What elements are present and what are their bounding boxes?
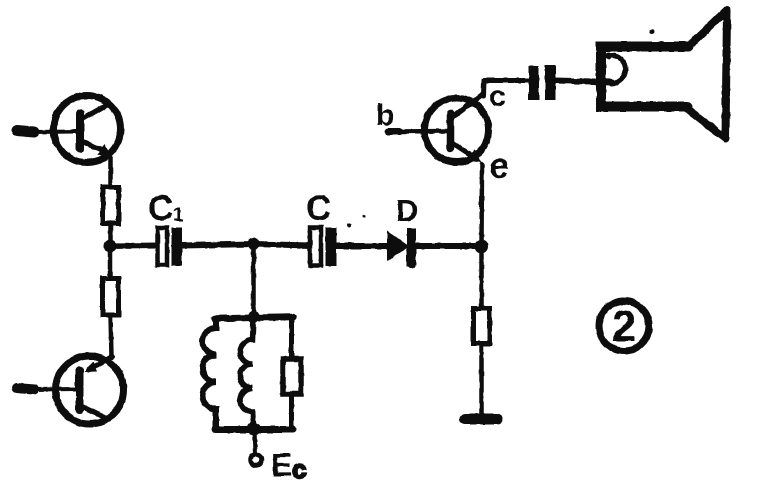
wire R1 to node A	[108, 223, 113, 246]
svg-text:2: 2	[612, 302, 636, 351]
transistor Q1	[54, 96, 121, 163]
figure number 2	[599, 301, 649, 351]
node B	[247, 238, 260, 251]
wire tank bottom edge	[215, 426, 293, 433]
speaker LS1	[601, 10, 727, 139]
node tank bottom	[248, 423, 261, 436]
inductor L1 left coil	[203, 319, 217, 430]
ground	[465, 414, 497, 425]
wire collector to C2	[484, 78, 529, 83]
wire Q1 emitter to R1	[108, 157, 113, 190]
capacitor C	[310, 228, 337, 267]
wire Q2 base lead	[17, 388, 76, 390]
svg-text:e: e	[489, 145, 509, 186]
label Ec	[271, 447, 306, 483]
resistor R3	[283, 359, 301, 394]
wire node B down to tank	[251, 244, 256, 317]
label C1	[148, 189, 184, 228]
inductor L2 middle coil	[240, 317, 254, 429]
node tank top	[248, 311, 260, 323]
resistor R1	[103, 187, 119, 224]
wire tank top edge	[214, 317, 293, 319]
speck near D	[363, 215, 366, 218]
wire R4 to ground	[479, 344, 484, 416]
svg-text:b: b	[376, 99, 394, 132]
wire node A to C1	[110, 243, 158, 250]
wire C2 to speaker	[555, 81, 612, 83]
wire R2 to Q2	[111, 315, 112, 357]
transistor Q2	[56, 356, 124, 424]
terminal Ec	[251, 455, 262, 466]
wire diode to node E	[416, 243, 482, 249]
wire Q1 base lead	[17, 131, 77, 133]
svg-text:1: 1	[173, 205, 184, 226]
wire tank bottom to terminal	[255, 430, 256, 454]
wire C to diode	[337, 243, 389, 249]
capacitor C1	[158, 228, 183, 266]
wire node E down to R4	[479, 247, 484, 309]
wire Q3 emitter down to node E	[479, 164, 484, 247]
wire Q3 base lead	[388, 128, 400, 135]
resistor R2	[103, 279, 119, 316]
node E	[475, 240, 489, 254]
svg-text:c: c	[292, 454, 306, 483]
wire C1 to node B	[182, 244, 254, 246]
diode D	[387, 228, 417, 269]
wire tank right bottom	[289, 394, 294, 429]
svg-text:E: E	[271, 447, 292, 483]
wire node B to C	[254, 244, 312, 246]
capacitor C2	[529, 65, 556, 100]
svg-text:C: C	[306, 189, 331, 228]
wire tank right top	[289, 318, 294, 360]
wire Q3 collector corner	[481, 81, 487, 97]
svg-text:c: c	[489, 80, 506, 113]
svg-text:D: D	[396, 193, 418, 228]
resistor R4	[474, 309, 490, 344]
node A	[104, 240, 117, 253]
transistor Q3	[425, 94, 489, 163]
wire node A to R2	[108, 250, 113, 279]
speck near C	[347, 223, 351, 227]
svg-text:C: C	[148, 189, 173, 228]
speck above speaker	[650, 30, 655, 35]
